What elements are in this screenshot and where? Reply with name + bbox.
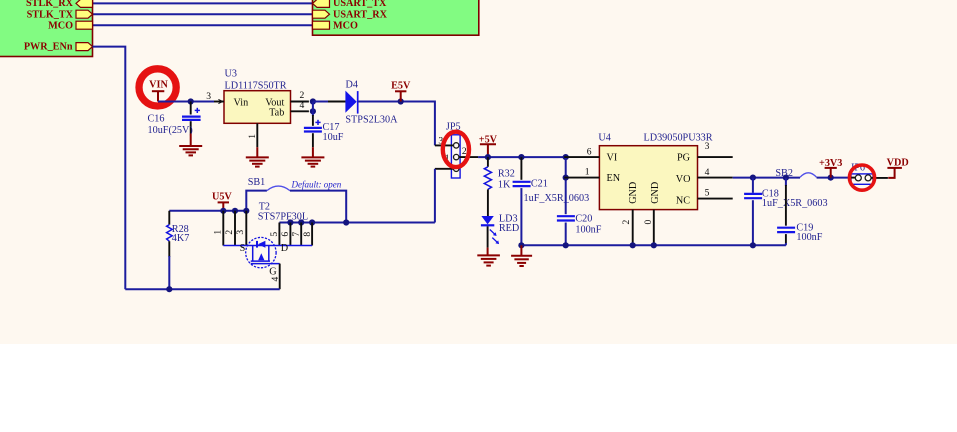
svg-text:C20: C20: [575, 213, 592, 224]
svg-text:4: 4: [705, 167, 710, 178]
svg-text:1K: 1K: [498, 179, 511, 190]
power port +5V: [479, 134, 498, 157]
wire VIN to U3 pin3: [158, 101, 214, 103]
sheet entry STLK_TX: [27, 9, 93, 20]
pin 2 GND of U4: [621, 210, 633, 246]
resistor R32: [484, 157, 515, 190]
wire U3 pin2 to D4: [313, 101, 346, 103]
ground under C17: [301, 147, 324, 166]
svg-text:SB1: SB1: [248, 177, 266, 188]
node T2 pin3: [243, 208, 249, 214]
svg-text:VDD: VDD: [887, 158, 909, 169]
wire +5V rail: [478, 156, 566, 158]
svg-text:STLK_RX: STLK_RX: [26, 0, 74, 9]
wire pin4 to pin2 vertical: [312, 102, 314, 112]
pin 1 EN of U4: [564, 167, 599, 178]
svg-text:Tab: Tab: [269, 107, 284, 118]
node C20 top: [563, 154, 569, 160]
svg-text:NC: NC: [676, 195, 690, 206]
svg-text:8: 8: [302, 232, 313, 237]
ground under U3 tab: [246, 147, 269, 166]
pin 5 NC of U4: [698, 187, 733, 198]
pin 3 of JP5: [435, 135, 459, 148]
sheet entry USART_RX: [313, 9, 388, 20]
pin 1 of JP5: [435, 153, 459, 171]
svg-text:C21: C21: [531, 178, 548, 189]
svg-text:USART_RX: USART_RX: [333, 9, 388, 20]
pin 1 Tab of U3: [247, 123, 258, 147]
pin 0 GND of U4: [643, 210, 654, 246]
ground under C16: [179, 134, 202, 156]
pin 4 gate of T2: [270, 264, 281, 290]
svg-text:10uF: 10uF: [323, 132, 344, 143]
svg-text:7: 7: [291, 232, 302, 237]
pin 4 of U3: [291, 100, 309, 111]
wire STLK_RX to USART_TX: [93, 2, 313, 4]
svg-text:1: 1: [585, 167, 590, 178]
wire gate row bottom: [125, 288, 279, 290]
sheet entry USART_TX: [313, 0, 388, 9]
capacitor C18: [744, 178, 827, 246]
svg-text:6: 6: [587, 147, 592, 158]
svg-text:LD39050PU33R: LD39050PU33R: [644, 133, 713, 144]
pin 2 of JP5: [454, 146, 479, 160]
svg-text:2: 2: [621, 220, 632, 225]
wire PWR_ENn down left side: [93, 47, 126, 290]
wire MCO to MCO: [93, 24, 313, 26]
svg-text:1: 1: [247, 134, 258, 139]
pin 6 VI of U4: [564, 147, 599, 158]
node T2 pin2: [232, 208, 238, 214]
svg-text:Vin: Vin: [234, 98, 249, 109]
svg-text:4: 4: [270, 277, 281, 282]
svg-text:R32: R32: [498, 168, 515, 179]
svg-text:D4: D4: [346, 80, 358, 91]
wire D4 to E5V corner: [359, 102, 435, 146]
node EN junction: [563, 175, 569, 181]
svg-text:D: D: [281, 243, 288, 254]
capacitor C19: [777, 178, 823, 246]
power port +3V3: [819, 158, 842, 177]
sheet entry MCO right: [313, 21, 358, 32]
svg-text:6: 6: [280, 232, 291, 237]
red highlight circle around JP6: [849, 165, 874, 190]
svg-text:MCO: MCO: [48, 21, 73, 32]
node C21 bottom: [518, 242, 524, 248]
wire U5V row: [169, 210, 246, 212]
node T2 pin8: [309, 219, 315, 225]
node at E5V: [398, 98, 404, 104]
capacitor C16: [148, 102, 201, 137]
svg-text:5: 5: [705, 187, 710, 198]
node U3 pin4: [310, 108, 316, 114]
svg-text:Default: open: Default: open: [291, 180, 342, 190]
svg-text:MCO: MCO: [333, 21, 358, 32]
svg-text:C16: C16: [148, 113, 165, 124]
node C20 bottom: [563, 242, 569, 248]
resistor R28: [167, 211, 190, 289]
sheet entry PWR_ENn: [24, 42, 93, 53]
svg-text:10uF(25V): 10uF(25V): [148, 125, 193, 136]
svg-text:3: 3: [206, 91, 211, 102]
svg-text:G: G: [269, 267, 277, 278]
svg-text:1uF_X5R_0603: 1uF_X5R_0603: [762, 198, 828, 209]
pin 4 VO of U4: [698, 167, 733, 178]
svg-text:USART_TX: USART_TX: [333, 0, 387, 9]
svg-text:VO: VO: [676, 174, 691, 185]
power port U5V: [212, 191, 232, 211]
red highlight ellipse around JP5: [443, 132, 469, 167]
node C21 top: [518, 154, 524, 160]
sheet symbol left (ST-LINK block): [0, 0, 93, 57]
node C18 bottom: [750, 242, 756, 248]
jumper JP6: [849, 162, 888, 184]
pin 3 of U3 with input arrow: [206, 91, 224, 104]
svg-text:EN: EN: [607, 173, 621, 184]
op U3 regulator LD1117S50TR: [224, 69, 291, 124]
svg-text:STPS2L30A: STPS2L30A: [345, 115, 398, 126]
pin 1 of T2: [212, 211, 223, 246]
pin 3 PG of U4: [698, 141, 733, 157]
capacitor C17: [304, 111, 344, 147]
source-drain bar of T2: [223, 245, 312, 247]
svg-text:3: 3: [705, 141, 710, 152]
node U4 gnd pin2: [630, 242, 636, 248]
capacitor C20: [557, 157, 602, 245]
power port VIN: [149, 80, 168, 102]
node C18 top: [750, 175, 756, 181]
svg-text:PG: PG: [677, 153, 691, 164]
svg-text:1uF_X5R_0603: 1uF_X5R_0603: [524, 193, 590, 204]
pin 6 of T2: [280, 223, 291, 246]
svg-text:1: 1: [212, 230, 223, 235]
svg-text:E5V: E5V: [391, 80, 411, 91]
node junction at C16: [188, 98, 194, 104]
svg-text:SB2: SB2: [775, 168, 793, 179]
svg-text:4: 4: [300, 100, 305, 111]
sheet symbol right (MCU block): [313, 0, 479, 35]
ground rail bottom: [521, 244, 786, 246]
svg-text:100nF: 100nF: [575, 224, 601, 235]
svg-text:4K7: 4K7: [172, 233, 190, 244]
wire VO to SB2: [733, 177, 800, 179]
node U4 gnd pin0: [651, 242, 657, 248]
pin 8 of T2: [302, 223, 313, 246]
node T2 pin1: [220, 208, 226, 214]
pin 2 of T2: [224, 211, 235, 246]
node +5V stem: [485, 154, 491, 160]
wire SB2 to +3V3: [817, 177, 849, 179]
svg-text:S: S: [240, 243, 246, 254]
power port E5V: [391, 80, 411, 101]
diode D4 STPS2L30A: [328, 80, 398, 126]
svg-text:U3: U3: [225, 69, 237, 80]
svg-text:VIN: VIN: [149, 80, 168, 91]
wire JP5 pin1 down to drain rail: [434, 169, 436, 223]
svg-text:STLK_TX: STLK_TX: [27, 9, 74, 20]
jumper JP5: [446, 121, 461, 178]
pin 7 of T2: [291, 223, 302, 246]
node +3V3: [828, 175, 834, 181]
drain rail of T2: [279, 222, 435, 224]
ground at rail: [511, 245, 532, 266]
svg-text:RED: RED: [499, 223, 519, 234]
mosfet body of T2: [240, 237, 289, 277]
svg-text:2: 2: [224, 230, 235, 235]
node U3 pin2: [310, 98, 316, 104]
svg-text:PWR_ENn: PWR_ENn: [24, 42, 73, 53]
solder bridge SB1: [246, 177, 346, 223]
node R28 bottom: [166, 286, 172, 292]
svg-text:3: 3: [235, 230, 246, 235]
pin 5 of T2: [269, 223, 280, 246]
svg-text:5: 5: [269, 232, 280, 237]
svg-text:LD1117S50TR: LD1117S50TR: [225, 81, 287, 92]
svg-text:0: 0: [643, 220, 654, 225]
svg-text:GND: GND: [628, 182, 639, 204]
svg-text:GND: GND: [650, 182, 661, 204]
svg-text:U4: U4: [598, 133, 610, 144]
node SB1 drain junction: [343, 219, 349, 225]
node T2 pin7: [298, 219, 304, 225]
node T2 pin6: [287, 219, 293, 225]
transistor T2 STS7PF30L: [258, 202, 308, 223]
LED LD3: [481, 214, 519, 245]
sheet entry STLK_RX: [26, 0, 93, 9]
svg-text:VI: VI: [607, 153, 618, 164]
op U4 regulator LD39050PU33R: [598, 133, 712, 210]
node C19 top: [783, 175, 789, 181]
pin 3 of T2: [235, 211, 246, 246]
svg-text:U5V: U5V: [212, 191, 232, 202]
wire STLK_TX to USART_RX: [93, 13, 313, 15]
ground under LD3: [477, 226, 500, 265]
solder bridge SB2: [775, 168, 816, 179]
pin 2 of U3: [291, 90, 309, 101]
wire R32 to LD3: [487, 189, 489, 216]
svg-text:100nF: 100nF: [796, 232, 822, 243]
capacitor C21: [513, 157, 590, 245]
power port VDD: [887, 158, 909, 178]
sheet entry MCO left: [48, 21, 92, 32]
red highlight circle around VIN: [139, 69, 176, 106]
